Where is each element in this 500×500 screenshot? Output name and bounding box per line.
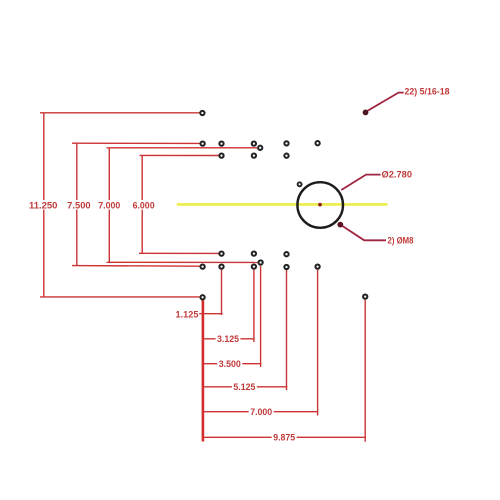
hole row A x=286.5 xyxy=(284,141,288,145)
dimension 7.000 label left xyxy=(97,200,122,211)
dimension 3.500 label xyxy=(217,359,242,370)
svg-text:3.500: 3.500 xyxy=(219,359,241,370)
hole row C x=221.5 xyxy=(219,251,223,255)
hole row D x=253.9 xyxy=(252,264,256,268)
dimension 6.000 bottom horizontal line xyxy=(139,252,219,254)
extension line from hole x=253.9 xyxy=(253,270,255,342)
bore center dot xyxy=(318,203,322,207)
hole top single xyxy=(200,111,204,115)
hole row C x=286.5 xyxy=(284,252,288,256)
dimension 7.500 top horizontal line xyxy=(72,142,200,144)
dimension 7.000 bottom horizontal line xyxy=(107,261,258,263)
hole row D x=202.6 xyxy=(200,264,204,268)
svg-text:22) 5/16-18: 22) 5/16-18 xyxy=(405,87,450,98)
hole top offset xyxy=(258,146,262,150)
dimension 11.250 bottom horizontal line xyxy=(40,296,200,298)
hole row D x=286.5 xyxy=(284,265,288,269)
extension line from hole x=286.5 xyxy=(286,270,288,390)
hole row A x=253.9 xyxy=(252,141,256,145)
dimension 7.500 label xyxy=(67,200,92,211)
dimension 7.000 top horizontal line xyxy=(107,147,258,149)
hole row A x=202.6 xyxy=(200,141,204,145)
svg-text:1.125: 1.125 xyxy=(176,309,200,320)
dimension 7.000 bottom label xyxy=(249,407,274,418)
main lower vertical reference line xyxy=(202,300,205,441)
M8 hole upper left xyxy=(298,182,302,186)
leader for 2) OM8 callout xyxy=(340,225,386,241)
dimension 7.000 bottom horizontal line xyxy=(203,411,318,413)
svg-text:9.875: 9.875 xyxy=(273,433,296,444)
svg-text:7.500: 7.500 xyxy=(67,200,91,211)
svg-text:6.000: 6.000 xyxy=(133,200,155,211)
dimension 11.250 top horizontal line xyxy=(40,112,199,114)
dimension 9.875 horizontal line xyxy=(203,436,366,438)
hole row B x=221.5 xyxy=(219,153,223,157)
hole row D x=317.6 xyxy=(315,264,319,268)
dimension 9.875 label xyxy=(272,433,297,444)
svg-text:Ø2.780: Ø2.780 xyxy=(382,170,413,181)
dimension 6.000 top horizontal line xyxy=(140,154,219,156)
dimension 11.250 vertical extent line xyxy=(43,113,45,297)
leader for O2.780 callout xyxy=(341,175,380,190)
dimension 3.125 label xyxy=(216,334,241,345)
hole row A x=317.6 xyxy=(315,141,319,145)
dimension 5.125 horizontal line xyxy=(203,386,287,388)
hole far bottom right xyxy=(363,294,367,298)
dimension 6.000 label xyxy=(131,200,157,211)
hole row B x=286.5 xyxy=(284,154,288,158)
bore circle O2.780 xyxy=(297,182,343,228)
svg-text:7.000: 7.000 xyxy=(250,407,272,418)
M8 hole dot lower right xyxy=(337,222,343,228)
dimension 11.250 label xyxy=(29,200,59,211)
dimension 7.000 left vertical extent line xyxy=(108,148,110,263)
hole row C x=253.9 xyxy=(252,251,256,255)
leader for 22) 5/16-18 callout xyxy=(366,93,404,112)
hole bottom offset xyxy=(258,260,262,264)
hole row B x=253.9 xyxy=(252,153,256,157)
dimension 3.125 horizontal line xyxy=(203,338,255,340)
yellow centerline xyxy=(177,203,388,206)
dimension 7.500 bottom horizontal line xyxy=(72,265,200,268)
hole row D x=221.5 xyxy=(219,264,223,268)
svg-text:7.000: 7.000 xyxy=(98,200,120,211)
svg-text:5.125: 5.125 xyxy=(233,382,256,393)
extension line from far hole x=365.2 xyxy=(364,300,366,442)
extension line from hole x=317.6 xyxy=(317,270,319,416)
svg-text:3.125: 3.125 xyxy=(217,334,240,345)
hole row A x=221.5 xyxy=(219,141,223,145)
svg-text:11.250: 11.250 xyxy=(29,200,58,211)
hole bottom single xyxy=(200,295,204,299)
dimension 1.125 horizontal line xyxy=(199,313,222,315)
extension line from hole x=221.5 xyxy=(221,270,223,315)
svg-text:2) ØM8: 2) ØM8 xyxy=(388,235,414,246)
dimension 5.125 label xyxy=(232,382,257,393)
dimension 3.500 horizontal line xyxy=(203,363,261,365)
dimension 6.000 vertical extent line xyxy=(141,155,143,253)
tapped hole dot top right xyxy=(363,110,369,116)
dimension 7.500 vertical extent line xyxy=(76,143,78,266)
extension line from offset hole x=260.5 xyxy=(260,266,262,367)
